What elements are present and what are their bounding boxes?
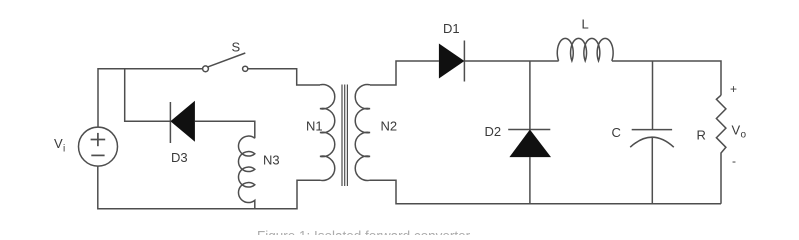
svg-text:o: o bbox=[741, 130, 747, 141]
svg-text:N2: N2 bbox=[381, 119, 398, 134]
svg-text:V: V bbox=[732, 123, 741, 138]
svg-text:D1: D1 bbox=[443, 21, 460, 36]
svg-text:C: C bbox=[612, 125, 621, 140]
svg-text:N3: N3 bbox=[263, 153, 280, 168]
svg-text:L: L bbox=[582, 17, 589, 32]
svg-text:+: + bbox=[730, 82, 737, 96]
svg-text:V: V bbox=[54, 136, 63, 151]
svg-text:N1: N1 bbox=[306, 119, 323, 134]
svg-text:D2: D2 bbox=[485, 124, 502, 139]
svg-text:R: R bbox=[697, 128, 706, 143]
svg-text:-: - bbox=[732, 154, 736, 168]
svg-text:D3: D3 bbox=[171, 150, 188, 165]
svg-text:i: i bbox=[63, 144, 65, 155]
svg-text:S: S bbox=[232, 40, 241, 55]
svg-text:Figure 1: Isolated forward con: Figure 1: Isolated forward converter bbox=[257, 228, 471, 235]
